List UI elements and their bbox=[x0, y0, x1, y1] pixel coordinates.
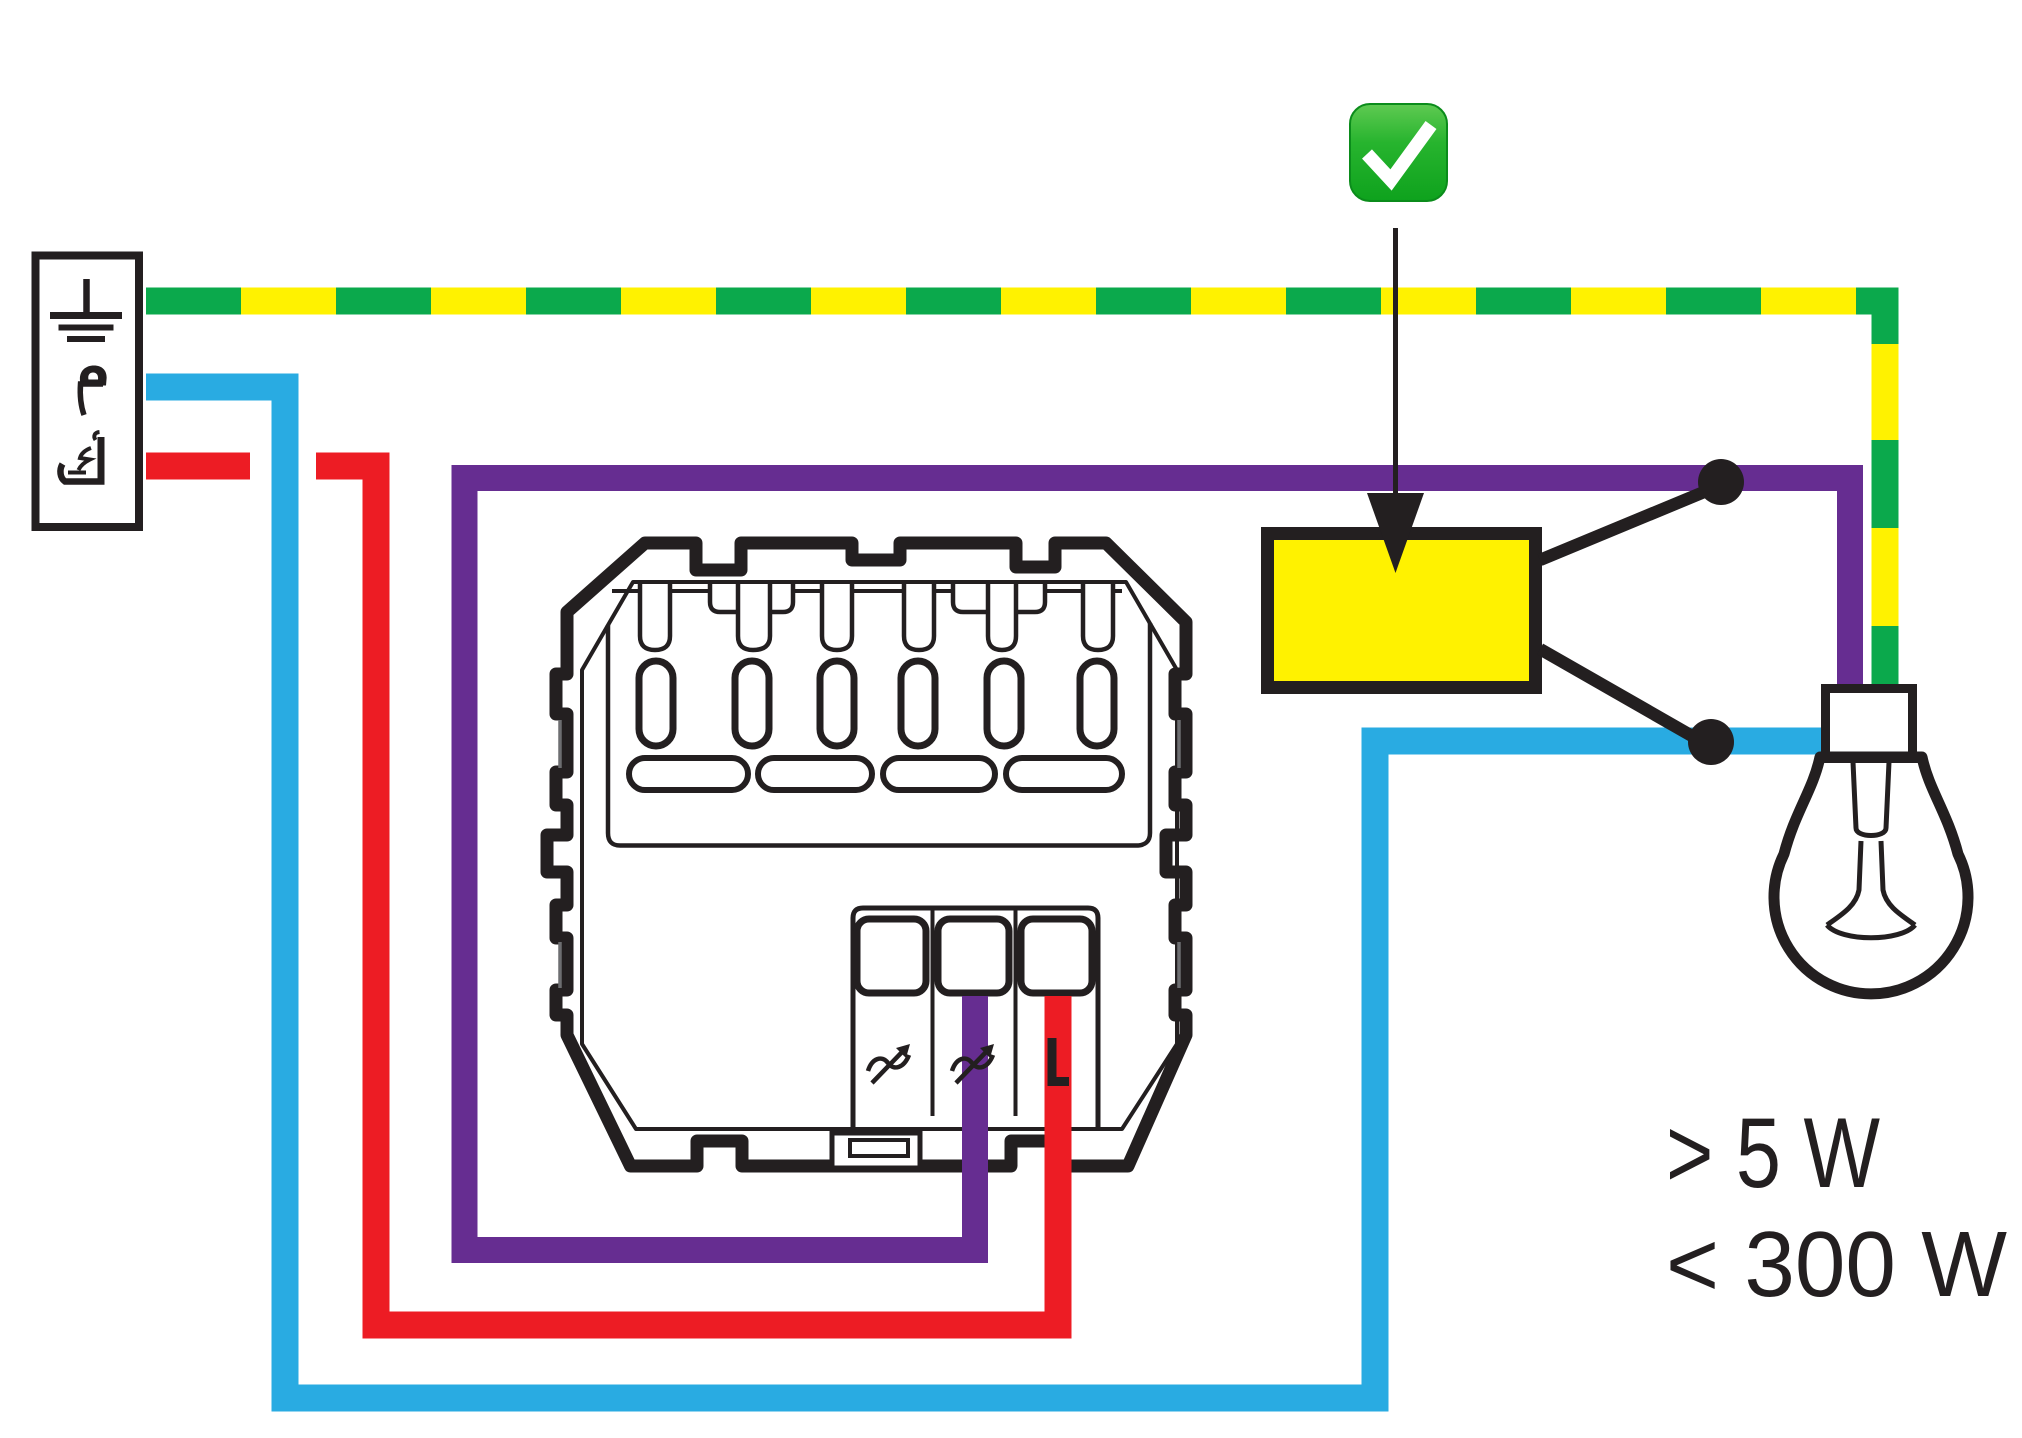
cover plate bbox=[608, 623, 1150, 846]
terminal label L bbox=[1052, 1038, 1069, 1082]
check emoji bbox=[1350, 104, 1447, 201]
switch contact lower bbox=[1688, 719, 1734, 765]
tooth crossbar B bbox=[953, 584, 1045, 612]
tooth slot 3 bbox=[822, 584, 852, 650]
inner case line bbox=[582, 582, 1177, 1129]
tooth slot 5 (stem B) bbox=[988, 584, 1016, 650]
terminal label dim symbol 2 bbox=[952, 1044, 994, 1083]
terminal 1 bbox=[857, 919, 926, 993]
outer case outline bbox=[547, 543, 1186, 1166]
terminal label dim symbol 1 bbox=[868, 1044, 910, 1083]
terminal divider lines bbox=[931, 909, 935, 1116]
dimmed live wire purple bbox=[465, 478, 1851, 1250]
socket bottom line bbox=[1819, 756, 1923, 763]
switch contact upper bbox=[1698, 459, 1744, 505]
lamp socket bbox=[1826, 689, 1913, 757]
node N (Arabic meem) bbox=[80, 366, 107, 416]
switch arm lower bbox=[1540, 649, 1706, 744]
oval slots row bbox=[639, 661, 1114, 746]
tooth crossbar A bbox=[710, 584, 793, 612]
neutral wire blue bbox=[146, 387, 1828, 1398]
dimmer mechanism U1 bbox=[547, 543, 1186, 1168]
terminal block bbox=[853, 908, 1098, 1127]
ground bbox=[50, 279, 122, 339]
bottom tab bbox=[832, 1133, 920, 1168]
lamp bulb bbox=[1774, 757, 1968, 994]
switch arm upper bbox=[1540, 487, 1716, 560]
svg-text:< 300 W: < 300 W bbox=[1666, 1212, 2007, 1316]
arrow bbox=[1393, 228, 1398, 508]
filament trumpet bbox=[1827, 841, 1915, 938]
node L (Arabic kaf) bbox=[60, 432, 104, 482]
pill slots row bbox=[629, 758, 1122, 790]
earth wire yellow dashes bbox=[146, 288, 1860, 315]
tooth slot 6 bbox=[1083, 584, 1113, 650]
transformer box bbox=[1268, 534, 1536, 688]
live wire red bbox=[146, 453, 250, 480]
tooth slot 4 bbox=[904, 584, 934, 650]
earth wire green bbox=[146, 301, 1885, 688]
tooth slot 1 bbox=[640, 584, 670, 650]
svg-text:> 5 W: > 5 W bbox=[1666, 1097, 1880, 1208]
terminal 3 bbox=[1021, 919, 1092, 993]
claw screws bbox=[560, 720, 1179, 988]
terminal 2 bbox=[938, 919, 1009, 993]
tooth slot 2 (stem A) bbox=[738, 584, 770, 650]
filament stem bbox=[1853, 762, 1889, 836]
supply box bbox=[36, 256, 140, 528]
cover band line bbox=[612, 589, 1122, 593]
